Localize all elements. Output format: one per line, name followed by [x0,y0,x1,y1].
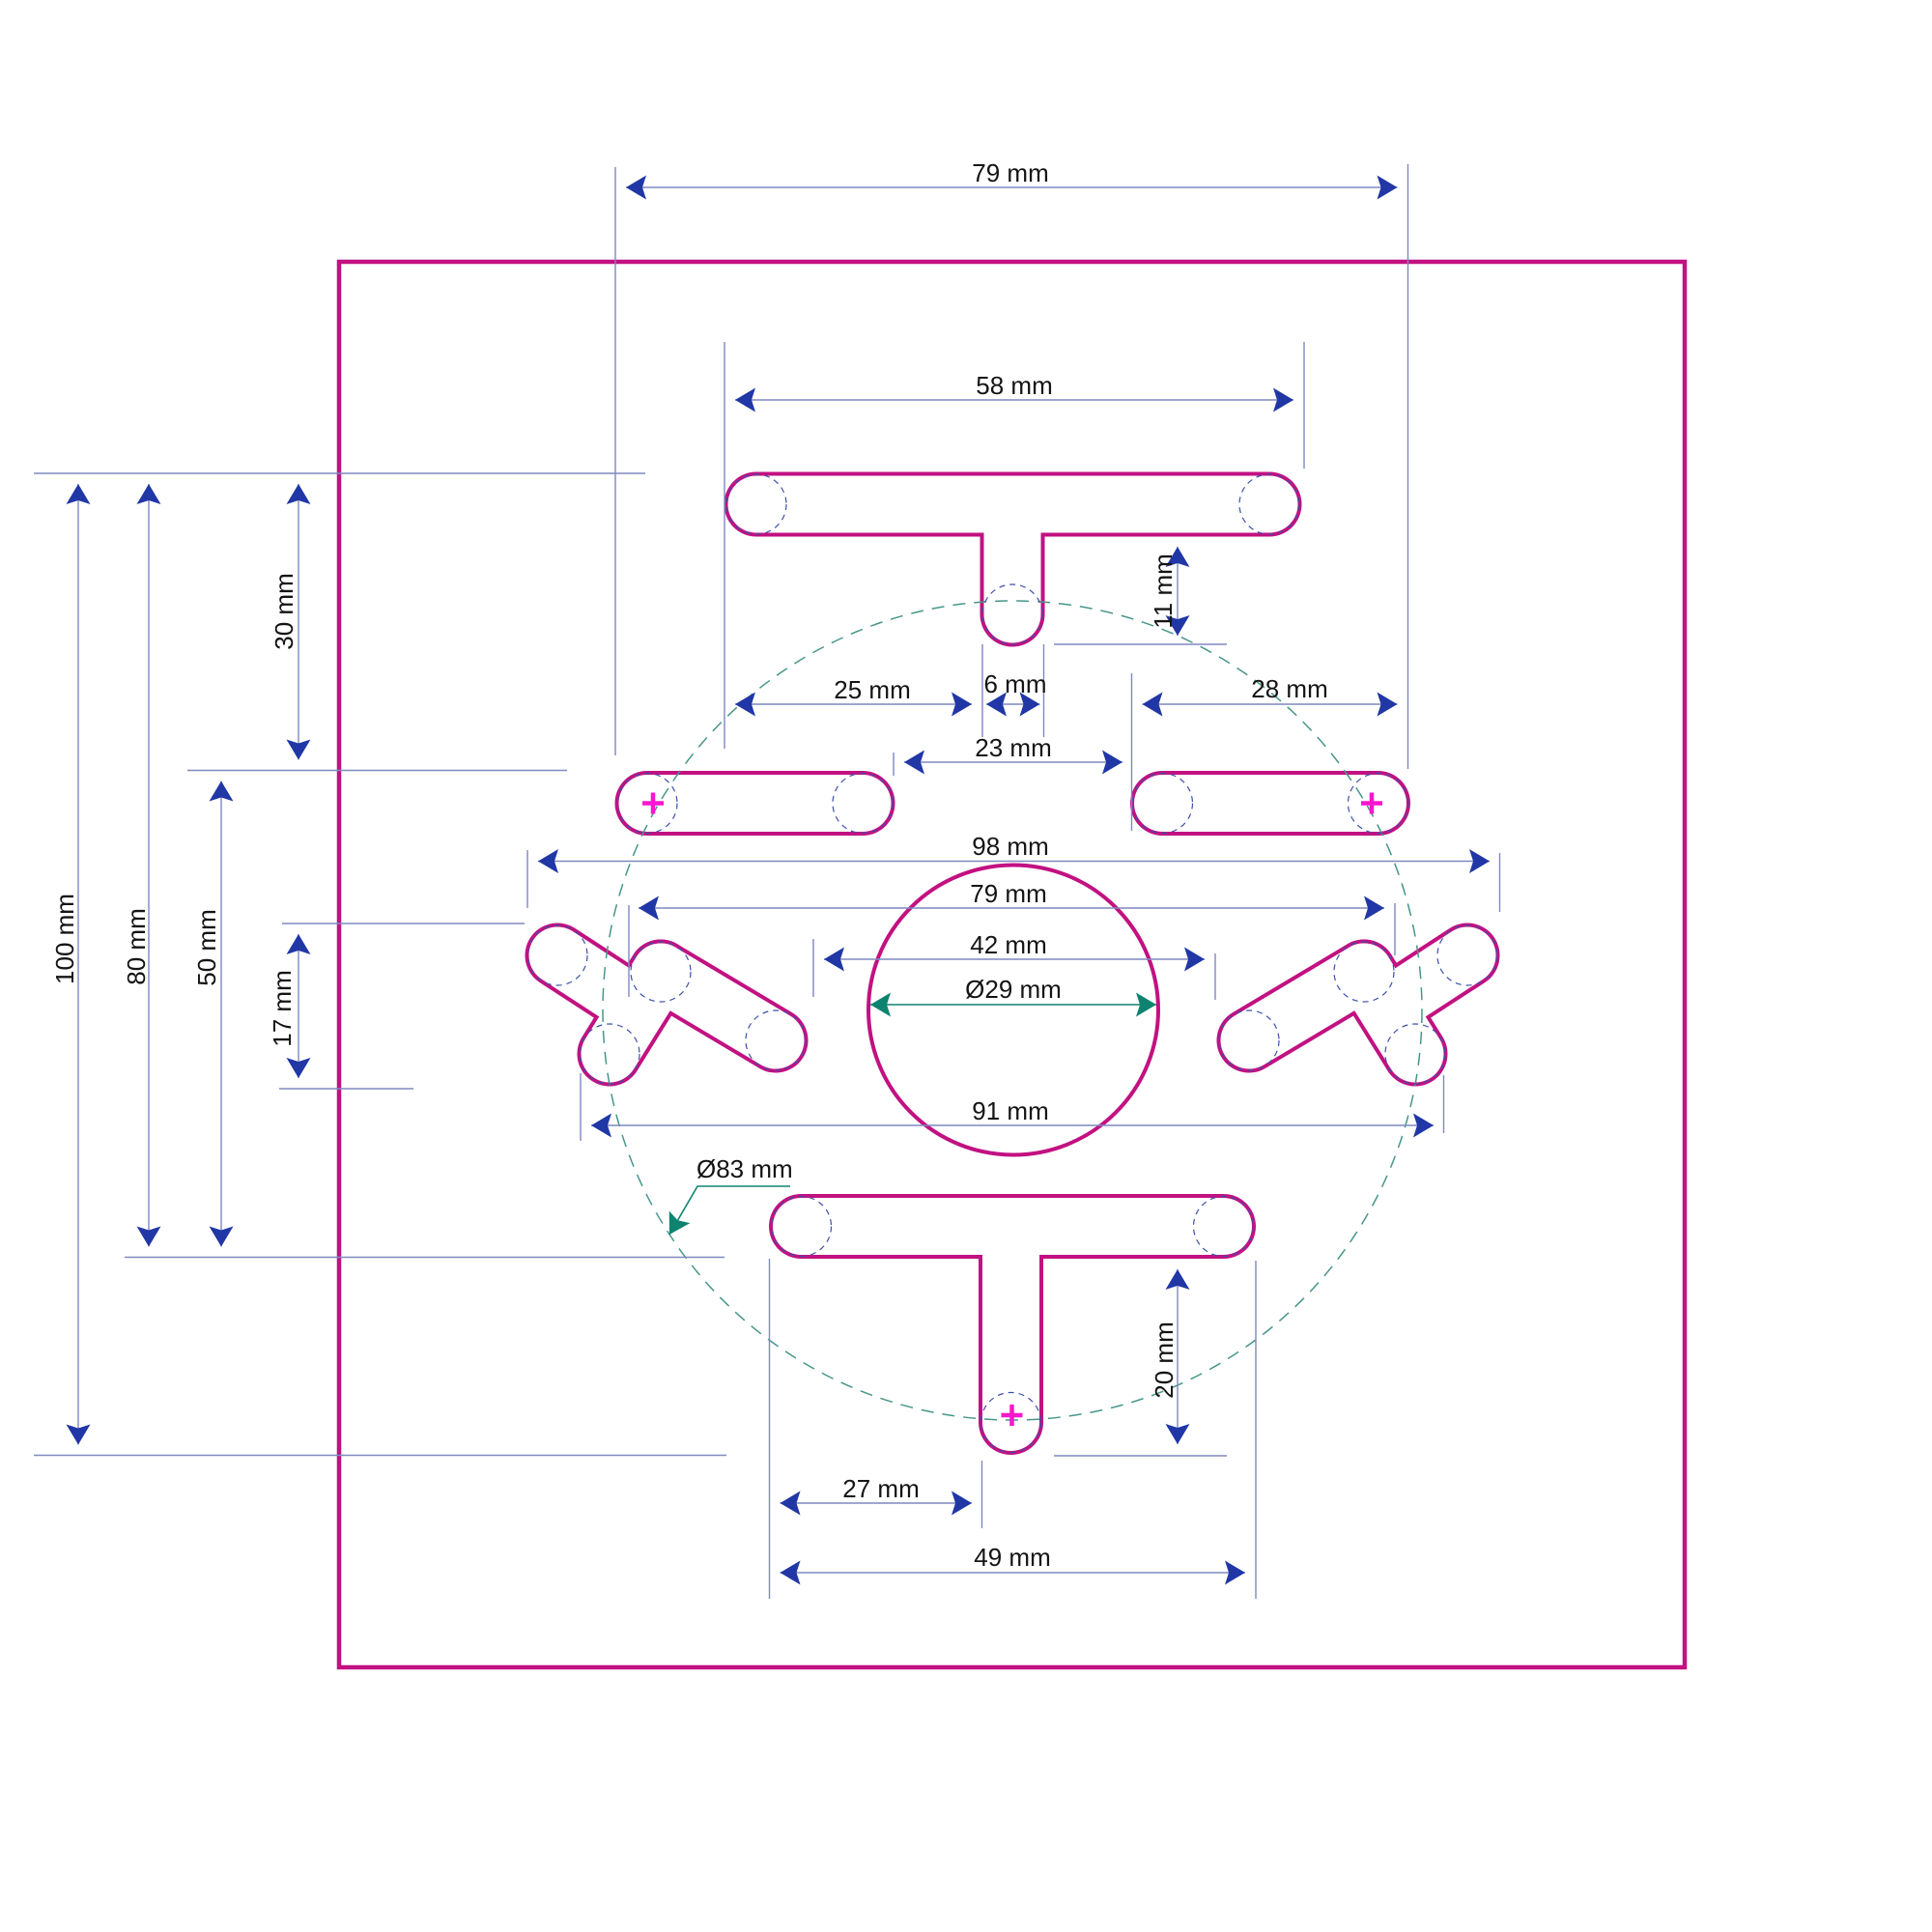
extension line top slot top edge [34,472,645,474]
hole circle top-T left [726,474,786,534]
svg-text:91 mm: 91 mm [972,1096,1048,1125]
extension line X inner left [812,939,814,997]
hole circle right X lower-right [1385,1024,1445,1084]
dimension 11 mm (top stem depth) [1149,547,1190,636]
centre mark left oval [642,793,664,814]
extension line top bar left [724,342,725,749]
extension line top stem left [981,644,983,737]
svg-text:23 mm: 23 mm [975,733,1051,762]
dimension 28 mm (right oval length) [1143,674,1398,717]
bottom T-slot [802,1227,1224,1423]
dimension 49 mm (bottom bar length) [781,1543,1246,1585]
dimension 42 mm (X slots inner gap) [824,930,1205,972]
extension line bottom stem tip right [1054,1455,1227,1457]
dimension 50 mm (ovals to bottom bar) [192,781,234,1247]
svg-text:17 mm: 17 mm [268,970,297,1046]
extension line X lower-right [1443,1075,1445,1133]
svg-text:28 mm: 28 mm [1251,674,1327,703]
hole circle right X lower-left [1219,1010,1279,1070]
extension line X slot top edge [282,923,525,924]
svg-text:6 mm: 6 mm [984,669,1047,698]
svg-text:20 mm: 20 mm [1150,1321,1179,1398]
svg-text:25 mm: 25 mm [834,675,910,704]
svg-text:42 mm: 42 mm [970,930,1046,959]
svg-text:79 mm: 79 mm [970,879,1046,908]
extension line oval slot top edge [187,770,567,772]
extension line top bar right [1303,342,1305,469]
hole circle bottom-T right [1194,1197,1254,1257]
dimension 17 mm (X slot height) [268,934,311,1078]
dimension 98 mm (X slots overall) [538,832,1490,873]
hole circle top-T right [1239,474,1299,534]
dimension 79 mm (ovals overall width, top) [626,158,1398,200]
hole circle left X lower-left [580,1024,639,1084]
extension line X lower-left [580,1073,582,1141]
centre mark right oval [1361,793,1382,814]
extension line X upper-mid left [628,905,630,997]
hole circle bottom-T left [772,1197,832,1257]
extension line ovals outer right [1407,164,1409,769]
svg-text:49 mm: 49 mm [974,1543,1050,1572]
extension line X inner right [1214,953,1216,1000]
dimension 6 mm (stem width) [984,669,1047,717]
leader line Ø83 mm [659,1154,793,1240]
hole circle left X lower-right [746,1010,806,1070]
hole circle left oval right [833,774,893,834]
svg-text:11 mm: 11 mm [1149,554,1178,629]
svg-text:58 mm: 58 mm [976,371,1052,400]
extension line bottom bar bottom edge [125,1257,724,1259]
extension line X upper-mid right [1394,903,1396,955]
hole circle right X upper-mid [1334,942,1394,1002]
extension line ovals outer left [614,167,616,755]
extension line X slot bottom edge [279,1088,413,1090]
left oval slot [647,771,863,836]
dimension 79 mm (X upper lobes outer) [639,879,1384,921]
hole circle bottom-T stem [981,1393,1041,1453]
dimension 80 mm (top to bottom bar) [122,484,161,1247]
extension line bottom bar left [769,1259,771,1599]
hole circle right X upper-right [1437,925,1497,985]
svg-text:80 mm: 80 mm [122,908,151,984]
hole circle left X upper-mid [631,942,691,1002]
svg-text:30 mm: 30 mm [270,573,298,649]
extension line bottom stem tip left [34,1455,726,1457]
dimension 58 mm (top bar length) [735,371,1293,412]
dimension 30 mm (top slot to ovals) [270,484,311,760]
dimension 25 mm (bar end to stem) [735,675,972,717]
hole circle right oval left [1133,774,1193,834]
right X slot (crossed capsules) [1249,955,1467,1054]
plate outline (blank) [339,262,1685,1667]
extension line bottom stem centre [981,1461,983,1528]
dimension 100 mm (total height) [50,484,91,1445]
central circle cutout Ø29 [868,866,1158,1155]
extension line X outer left [526,850,528,908]
right oval slot [1163,771,1378,836]
svg-text:Ø83 mm: Ø83 mm [696,1154,793,1183]
left X slot (crossed capsules) [557,955,776,1054]
svg-text:27 mm: 27 mm [842,1474,919,1503]
dimension 20 mm (bottom stem depth) [1150,1269,1190,1444]
dimension 23 mm (gap between ovals) [904,733,1122,775]
dimension Ø29 mm (centre circle diameter) [870,975,1156,1017]
hole circle top-T stem [982,584,1042,644]
hole circle right oval right [1349,774,1408,834]
svg-text:79 mm: 79 mm [972,158,1048,187]
extension line left oval inner end [893,753,895,776]
svg-text:Ø29 mm: Ø29 mm [965,975,1062,1004]
centre mark bottom stem [1002,1405,1023,1426]
dimension 91 mm (X lower lobes outer) [591,1096,1434,1138]
svg-text:50 mm: 50 mm [192,909,221,985]
top T-slot [756,504,1269,614]
extension line top stem tip right [1054,643,1227,645]
svg-text:100 mm: 100 mm [50,894,79,984]
extension line X outer right [1499,853,1501,912]
svg-text:98 mm: 98 mm [972,832,1048,861]
extension line right oval inner end [1131,673,1133,831]
hole circle left X upper-left [527,925,587,985]
extension line bottom bar right [1255,1261,1257,1599]
hole circle left oval left [617,774,677,834]
dimension 27 mm (bottom bar end to stem) [781,1474,973,1516]
extension line top stem right [1043,644,1045,737]
bolt circle Ø83 (dashed) [603,601,1422,1420]
